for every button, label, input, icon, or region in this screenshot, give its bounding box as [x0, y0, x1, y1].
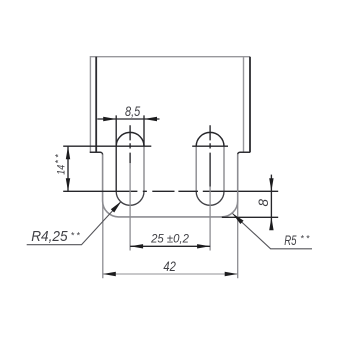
dimension 8,5: arrows	[103, 117, 116, 121]
slot right: bottom arc	[196, 191, 224, 205]
leader R5: line	[233, 214, 313, 249]
svg-text:**: **	[54, 152, 64, 163]
dimension 42: extension lines	[103, 154, 238, 278]
dimension 14: dim line	[67, 146, 69, 191]
slot right: sides	[196, 146, 224, 191]
dimension 8: bottom extension	[222, 216, 278, 218]
leader R4,25: arrow	[111, 201, 122, 212]
part outline: lower body with R5 bottom corners (thin)	[103, 154, 238, 217]
slot right: top arc R4.25	[196, 132, 224, 146]
dimension 25: dim line	[130, 245, 210, 247]
dimension 8,5: dim line	[97, 118, 159, 120]
svg-text:14: 14	[56, 164, 68, 174]
svg-text:R4,25: R4,25	[31, 228, 68, 244]
svg-text:42: 42	[163, 259, 175, 274]
centerline: bottom horizontal through slot bottoms + 14-dim lower ext + 8-dim upper ext	[63, 190, 278, 192]
slot left: bottom arc	[116, 191, 144, 205]
svg-text:25 ±0,2: 25 ±0,2	[150, 232, 189, 245]
dimension 8: dim line	[270, 175, 272, 230]
part outline: right step	[238, 152, 251, 154]
leader R4,25: line	[27, 201, 122, 244]
centerline: left slot vertical dash-dot	[129, 125, 131, 163]
dimension 14: arrows	[66, 146, 70, 159]
slot left: sides	[143, 146, 145, 191]
dimension 42: dim line	[103, 273, 238, 275]
svg-text:8: 8	[256, 199, 271, 207]
dimension 42: arrows	[103, 272, 116, 276]
centerline: right slot vertical dash-dot	[209, 125, 211, 186]
svg-text:**: **	[300, 234, 311, 244]
dimension 25: extension lines below slots	[130, 163, 210, 250]
leader R5: arrow	[233, 214, 244, 225]
part outline: left step	[90, 152, 103, 154]
part outline: top bend lines (dark)	[96, 57, 250, 153]
svg-text:8,5: 8,5	[125, 104, 140, 119]
dimension 8: arrows	[269, 178, 273, 191]
svg-text:**: **	[71, 230, 82, 240]
part outline: top plate edges (thin)	[90, 57, 250, 152]
centerline: top crosshair line + 14-dim upper extension	[63, 145, 228, 147]
dimension 8,5: extension lines	[116, 115, 144, 191]
slot left: top arc R4.25	[116, 132, 144, 146]
dimension 25: arrows	[130, 244, 143, 248]
svg-text:R5: R5	[284, 232, 297, 248]
